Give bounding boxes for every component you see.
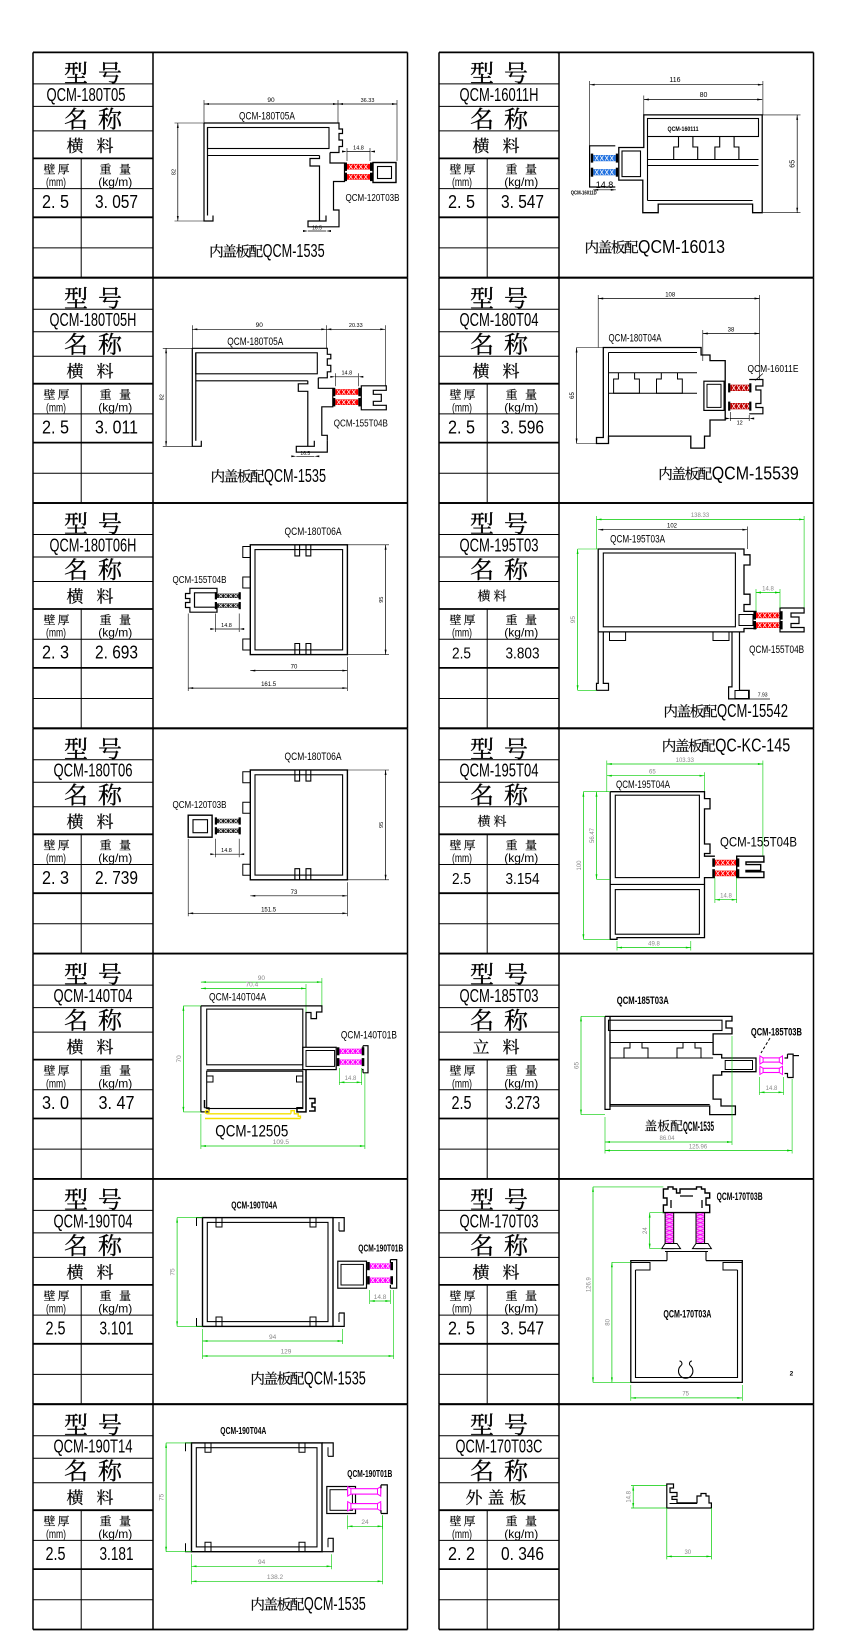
svg-text:(mm): (mm) <box>46 175 66 189</box>
header 壁厚(mm) <box>450 839 461 850</box>
dim 102 <box>598 529 747 531</box>
C-part QCM-155T04B <box>780 608 804 632</box>
svg-text:2. 693: 2. 693 <box>95 642 138 663</box>
dim 16.5 <box>296 455 314 457</box>
dim 20.33 <box>326 328 385 330</box>
svg-text:129: 129 <box>281 1349 292 1356</box>
green dim 109.5 <box>201 1145 365 1147</box>
green dim 14.8 <box>370 1300 391 1302</box>
profile QCM-190T04A outline <box>192 1443 323 1552</box>
drawing frame L5 <box>153 953 408 955</box>
svg-text:(kg/m): (kg/m) <box>98 1302 132 1316</box>
yellow strip QCM-12505 <box>205 1118 301 1120</box>
svg-text:95: 95 <box>379 597 385 603</box>
header 名称 <box>471 1009 492 1031</box>
name 横料 <box>473 363 489 379</box>
right web leg <box>729 632 750 699</box>
header 名称 <box>65 1459 86 1481</box>
header 型号 <box>471 1414 493 1435</box>
svg-text:(mm): (mm) <box>46 400 66 414</box>
header 壁厚(mm) <box>450 614 461 625</box>
svg-text:126.9: 126.9 <box>587 1276 593 1292</box>
dim 12 <box>730 418 749 420</box>
svg-text:2. 5: 2. 5 <box>448 1318 475 1339</box>
svg-text:2. 2: 2. 2 <box>448 1543 475 1564</box>
red connector <box>756 613 780 619</box>
connector dark red <box>730 385 749 391</box>
green dim 90 <box>201 981 322 983</box>
header 名称 <box>471 333 492 355</box>
bottom slots <box>295 644 311 655</box>
svg-text:70.4: 70.4 <box>246 981 259 988</box>
profile QCM-185T03A outline <box>605 1016 756 1114</box>
profile QCM-195T03A outline <box>598 549 756 632</box>
svg-text:3. 011: 3. 011 <box>95 416 138 437</box>
green dim 14.8 vertical <box>631 1485 667 1487</box>
upper hollow <box>615 795 699 877</box>
header 壁厚(mm) <box>44 389 55 400</box>
dim 16.5 <box>308 230 326 232</box>
dim 14.8 <box>215 853 239 855</box>
green vdim 24 <box>649 1213 651 1249</box>
svg-text:16.5: 16.5 <box>300 451 310 457</box>
flares <box>662 1244 681 1249</box>
svg-text:14.8: 14.8 <box>341 371 352 377</box>
svg-text:QCM-180T06A: QCM-180T06A <box>285 751 343 763</box>
header 型号 <box>471 62 493 83</box>
profile QCM-180T06A outline <box>250 770 347 880</box>
svg-text:(mm): (mm) <box>452 1076 472 1090</box>
svg-text:(mm): (mm) <box>452 175 472 189</box>
svg-text:14.8: 14.8 <box>221 848 232 854</box>
profile QCM-190T04A outline <box>203 1218 334 1327</box>
left leg <box>597 632 609 690</box>
header 重量(kg/m) <box>506 1290 517 1301</box>
caption 内盖板配QCM-1535 <box>252 1372 264 1385</box>
svg-text:38: 38 <box>728 327 735 333</box>
header 重量(kg/m) <box>506 1065 517 1076</box>
box QCM-120T03B <box>188 815 212 837</box>
svg-text:QCM-140T01B: QCM-140T01B <box>341 1030 397 1042</box>
svg-text:86.04: 86.04 <box>659 1136 675 1142</box>
svg-text:2. 3: 2. 3 <box>42 642 69 663</box>
caption 内盖板配QCM-15542 <box>665 704 677 717</box>
svg-text:QCM-180T05A: QCM-180T05A <box>239 111 295 123</box>
svg-text:QCM-155T04B: QCM-155T04B <box>749 644 804 656</box>
svg-text:73: 73 <box>291 890 298 896</box>
mid tongue hollow <box>739 615 753 626</box>
header 型号 <box>471 512 493 533</box>
keyhole <box>679 1365 693 1378</box>
dim bottom 70 <box>250 670 347 672</box>
green dim 30 <box>666 1508 668 1559</box>
svg-text:16.5: 16.5 <box>312 226 322 232</box>
svg-text:QCM-16011D: QCM-16011D <box>571 191 597 197</box>
drawing frame R2 <box>557 277 814 279</box>
magenta hatch columns <box>665 1213 674 1249</box>
table block QCM-185T03 <box>439 953 559 955</box>
svg-text:QCM-190T01B: QCM-190T01B <box>358 1244 403 1255</box>
svg-text:56.47: 56.47 <box>590 827 596 843</box>
header 名称 <box>471 108 492 130</box>
svg-text:90: 90 <box>267 97 275 104</box>
svg-text:90: 90 <box>258 975 266 982</box>
svg-text:80: 80 <box>605 1318 611 1325</box>
svg-text:(kg/m): (kg/m) <box>504 1527 538 1541</box>
svg-text:94: 94 <box>258 1559 266 1566</box>
svg-text:102: 102 <box>667 524 678 530</box>
svg-text:2.5: 2.5 <box>452 871 471 888</box>
header 重量(kg/m) <box>506 614 517 625</box>
mid shelf <box>610 883 704 885</box>
name 横料 <box>67 588 83 604</box>
left notch hooks <box>207 1076 213 1082</box>
svg-text:24: 24 <box>361 1519 369 1526</box>
name 横料 <box>67 1039 83 1055</box>
svg-text:3. 547: 3. 547 <box>501 1318 544 1339</box>
C-part QCM-155T04B <box>737 856 764 877</box>
name 横料 <box>67 1489 83 1505</box>
svg-text:20.33: 20.33 <box>349 323 363 329</box>
table block QCM-195T04 <box>439 727 559 729</box>
svg-text:QCM-15542: QCM-15542 <box>717 700 788 721</box>
svg-text:(kg/m): (kg/m) <box>98 626 132 640</box>
attach box <box>622 151 641 177</box>
svg-text:(mm): (mm) <box>46 626 66 640</box>
svg-text:3. 47: 3. 47 <box>99 1092 135 1113</box>
svg-text:138.2: 138.2 <box>267 1574 284 1581</box>
drawing frame L6 <box>153 1178 408 1180</box>
svg-text:2. 3: 2. 3 <box>42 867 69 888</box>
svg-text:QCM-195T04: QCM-195T04 <box>460 761 539 781</box>
header 型号 <box>471 738 493 759</box>
right column <box>333 1218 344 1327</box>
right bracket <box>785 1054 794 1077</box>
header 型号 <box>65 738 87 759</box>
dim vertical 95 <box>385 545 387 655</box>
svg-text:14.8: 14.8 <box>720 894 732 900</box>
header 重量(kg/m) <box>100 389 111 400</box>
svg-text:24: 24 <box>643 1227 649 1234</box>
connector hatched <box>217 819 239 823</box>
svg-text:49.8: 49.8 <box>648 941 660 947</box>
dim 116 <box>590 84 763 86</box>
right tongue <box>303 1047 336 1069</box>
green vdim 100 <box>582 792 584 940</box>
header 重量(kg/m) <box>506 164 517 175</box>
green dim 129 <box>203 1355 394 1357</box>
svg-text:2. 5: 2. 5 <box>42 191 69 212</box>
svg-text:QCM-190T04A: QCM-190T04A <box>220 1426 266 1437</box>
name 立料 <box>473 1039 489 1053</box>
svg-text:QCM-180T05: QCM-180T05 <box>47 85 126 105</box>
caption 内盖板配QCM-15539 <box>660 467 672 480</box>
name 横料 <box>473 138 489 154</box>
dim 80 <box>644 99 762 101</box>
profile web right <box>310 156 320 222</box>
connector hatched <box>217 594 239 598</box>
profile QCM-180T05A outline <box>192 348 201 446</box>
header 名称 <box>471 1459 492 1481</box>
connector red <box>335 389 358 395</box>
svg-text:QCM-1535: QCM-1535 <box>263 240 325 261</box>
upper hollow <box>603 553 735 627</box>
vdim 65 <box>796 115 798 213</box>
svg-text:(kg/m): (kg/m) <box>98 400 132 414</box>
green vdim 65 <box>580 1016 582 1114</box>
profile QCM-180T05A outline <box>204 123 213 221</box>
T slots <box>624 1043 648 1059</box>
green dim 138.2 <box>192 1580 383 1582</box>
header 名称 <box>471 1234 492 1256</box>
dim 36.33 <box>338 103 397 105</box>
green vdim 70 <box>182 1006 184 1112</box>
svg-text:14.8: 14.8 <box>221 623 232 629</box>
header 名称 <box>65 108 86 130</box>
green dim 14.8 <box>756 592 780 594</box>
svg-text:65: 65 <box>790 160 797 168</box>
profile QCM-160111 outline <box>619 115 762 213</box>
svg-text:QCM-15539: QCM-15539 <box>712 463 799 484</box>
svg-text:QCM-195T03A: QCM-195T03A <box>610 533 665 545</box>
header 重量(kg/m) <box>100 164 111 175</box>
header 壁厚(mm) <box>44 1065 55 1076</box>
bottom slots <box>295 869 311 880</box>
svg-text:(mm): (mm) <box>46 1302 66 1316</box>
header 型号 <box>471 287 493 308</box>
svg-text:QCM-155T04B: QCM-155T04B <box>720 834 797 850</box>
lower hollow <box>648 200 753 202</box>
profile QCM-195T04A outline <box>610 792 715 857</box>
header 型号 <box>65 963 87 984</box>
mid separator <box>207 1069 303 1071</box>
green dim 94 <box>203 1340 343 1342</box>
connector magenta QCM-140T01B <box>339 1049 361 1054</box>
dim 14.8 <box>215 628 239 630</box>
header 重量(kg/m) <box>506 1515 517 1526</box>
dim 82 vertical <box>165 348 167 446</box>
name 横料 <box>473 1264 489 1280</box>
svg-text:QCM-190T14: QCM-190T14 <box>54 1437 133 1457</box>
header 名称 <box>65 1009 86 1031</box>
table block QCM-190T04 <box>33 1178 153 1180</box>
header 名称 <box>65 333 86 355</box>
T slot 1 <box>674 137 698 160</box>
svg-text:(kg/m): (kg/m) <box>504 175 538 189</box>
red connector <box>715 860 737 866</box>
dim vertical 95 <box>385 770 387 880</box>
svg-text:QCM-170T03B: QCM-170T03B <box>717 1191 763 1203</box>
svg-text:3.181: 3.181 <box>100 1543 134 1564</box>
svg-text:QCM-195T03: QCM-195T03 <box>460 535 539 555</box>
svg-text:QCM-140T04: QCM-140T04 <box>54 986 133 1006</box>
header 重量(kg/m) <box>100 1065 111 1076</box>
C-part QCM-155T04B <box>361 386 386 410</box>
profile QCM-180T06A outline <box>250 545 347 655</box>
header 壁厚(mm) <box>450 1515 461 1526</box>
box QCM-120T03B <box>373 163 396 183</box>
svg-text:QCM-120T03B: QCM-120T03B <box>346 192 400 204</box>
svg-text:100: 100 <box>577 860 583 871</box>
dim bottom 73 <box>250 895 347 897</box>
header 壁厚(mm) <box>450 164 461 175</box>
drawing frame L1 <box>153 51 408 53</box>
left blue connector column <box>590 146 616 187</box>
green dim 70.4 <box>201 987 306 989</box>
header 名称 <box>471 558 492 580</box>
green vdim 95 <box>577 549 579 690</box>
svg-text:QCM-190T04A: QCM-190T04A <box>231 1201 277 1212</box>
right bracket <box>362 1046 368 1073</box>
header 名称 <box>65 558 86 580</box>
C-part QCM-16011E <box>749 380 763 414</box>
svg-text:3. 547: 3. 547 <box>501 191 544 212</box>
svg-text:80: 80 <box>700 92 708 99</box>
svg-text:QCM-155T04B: QCM-155T04B <box>173 574 227 586</box>
table block QCM-170T03C <box>439 1403 559 1405</box>
right bracket <box>381 1485 387 1514</box>
header 重量(kg/m) <box>506 839 517 850</box>
svg-text:75: 75 <box>159 1493 166 1501</box>
profile web right <box>298 381 308 447</box>
dim 90 <box>192 328 326 330</box>
svg-text:QCM-140T04A: QCM-140T04A <box>209 992 267 1004</box>
right column <box>322 1443 333 1552</box>
leader line <box>761 1038 770 1053</box>
magenta connector outlined <box>760 1058 783 1062</box>
svg-text:2.5: 2.5 <box>46 1318 66 1339</box>
dim 82 vertical <box>177 123 179 221</box>
svg-text:65: 65 <box>570 392 576 399</box>
header 壁厚(mm) <box>450 1065 461 1076</box>
svg-text:QCM-170T03: QCM-170T03 <box>460 1211 539 1231</box>
table block QCM-180T05H <box>33 277 153 279</box>
header 型号 <box>65 287 87 308</box>
link to box <box>665 1252 708 1261</box>
svg-text:82: 82 <box>171 169 177 175</box>
header 型号 <box>65 512 87 533</box>
svg-text:QCM-180T05A: QCM-180T05A <box>227 336 283 348</box>
header 名称 <box>471 783 492 805</box>
name 横料 <box>67 814 83 830</box>
table block QCM-16011H <box>439 51 559 53</box>
inner hollow T03B <box>671 1196 702 1208</box>
svg-text:95: 95 <box>570 616 577 624</box>
profile QCM-170T03B outline <box>663 1187 709 1213</box>
svg-text:30: 30 <box>684 1550 691 1556</box>
green dim 75 <box>631 1397 743 1399</box>
svg-text:(mm): (mm) <box>46 851 66 865</box>
svg-text:3. 0: 3. 0 <box>42 1092 69 1113</box>
green vdim 75 <box>176 1218 178 1327</box>
svg-text:QCM-180T06H: QCM-180T06H <box>50 535 137 555</box>
profile QCM-140T04A outline <box>201 1006 322 1047</box>
green dim 138.33 <box>597 518 805 520</box>
svg-text:70: 70 <box>291 665 298 671</box>
green vdim 56.47 <box>596 792 598 880</box>
svg-text:QCM-185T03B: QCM-185T03B <box>751 1027 802 1039</box>
top-left hook <box>186 1443 192 1451</box>
dim 38 <box>703 333 760 335</box>
svg-text:82: 82 <box>160 394 166 400</box>
svg-text:(kg/m): (kg/m) <box>504 1076 538 1090</box>
svg-text:QCM-185T03: QCM-185T03 <box>460 986 539 1006</box>
header 壁厚(mm) <box>450 1290 461 1301</box>
svg-text:(kg/m): (kg/m) <box>98 1527 132 1541</box>
caption 盖板配QCM-1535 bold <box>645 1120 657 1131</box>
top bar hollow <box>609 1020 723 1030</box>
svg-text:2.5: 2.5 <box>452 646 471 663</box>
header 重量(kg/m) <box>100 1515 111 1526</box>
svg-text:QCM-180T05H: QCM-180T05H <box>50 310 137 330</box>
svg-text:QCM-160111: QCM-160111 <box>668 126 699 133</box>
svg-text:90: 90 <box>256 322 264 329</box>
table block QCM-180T05 <box>33 51 153 53</box>
svg-text:QCM-1535: QCM-1535 <box>304 1593 366 1614</box>
green vdim 80 <box>611 1262 613 1382</box>
svg-text:3.101: 3.101 <box>100 1318 134 1339</box>
inner top bar <box>609 352 698 354</box>
svg-text:2. 739: 2. 739 <box>95 867 138 888</box>
svg-text:QCM-180T06: QCM-180T06 <box>54 761 133 781</box>
svg-text:QCM-155T04B: QCM-155T04B <box>334 417 388 429</box>
svg-text:QCM-185T03A: QCM-185T03A <box>617 995 669 1007</box>
svg-text:0. 346: 0. 346 <box>501 1543 544 1564</box>
header 型号 <box>65 62 87 83</box>
header 名称 <box>65 783 86 805</box>
header 重量(kg/m) <box>100 1290 111 1301</box>
lower hollow <box>615 890 699 935</box>
C-part QCM-155T04B <box>186 588 218 612</box>
T slot 2 <box>657 373 683 394</box>
svg-text:151.5: 151.5 <box>261 907 277 913</box>
svg-text:108: 108 <box>665 292 676 298</box>
table block QCM-180T06H <box>33 502 153 504</box>
svg-text:3.273: 3.273 <box>505 1092 540 1113</box>
svg-text:QCM-1535: QCM-1535 <box>683 1119 714 1134</box>
green dim 103.33 <box>607 763 763 765</box>
svg-text:QCM-195T04A: QCM-195T04A <box>616 779 670 791</box>
svg-text:QCM-180T04A: QCM-180T04A <box>609 333 662 345</box>
svg-text:QCM-1535: QCM-1535 <box>264 465 326 486</box>
left edge hooks <box>243 547 251 558</box>
svg-text:QCM-1535: QCM-1535 <box>304 1367 366 1388</box>
svg-text:(kg/m): (kg/m) <box>504 851 538 865</box>
svg-text:QCM-16013: QCM-16013 <box>638 236 725 257</box>
header 壁厚(mm) <box>450 389 461 400</box>
svg-text:QCM-170T03A: QCM-170T03A <box>663 1309 711 1321</box>
svg-text:14.8: 14.8 <box>345 1076 357 1082</box>
connector magenta <box>348 1489 381 1494</box>
svg-text:3. 057: 3. 057 <box>95 191 138 212</box>
inner top slots <box>216 1218 316 1227</box>
header 名称 <box>65 1234 86 1256</box>
svg-text:65: 65 <box>574 1062 581 1070</box>
profile QCM-170T03C outline <box>667 1484 712 1508</box>
green dim 14.8 <box>339 1081 361 1083</box>
connector red <box>347 164 370 170</box>
right C-hook foot <box>309 1099 315 1112</box>
connector magenta <box>370 1263 391 1268</box>
drawing frame R5 <box>557 953 814 955</box>
svg-text:(kg/m): (kg/m) <box>98 1076 132 1090</box>
svg-text:7.93: 7.93 <box>758 693 768 699</box>
svg-text:QCM-180T06A: QCM-180T06A <box>285 526 343 538</box>
top slots <box>295 770 311 781</box>
svg-text:2. 5: 2. 5 <box>448 416 475 437</box>
svg-text:161.5: 161.5 <box>261 682 277 688</box>
svg-text:QCM-16011H: QCM-16011H <box>460 85 539 105</box>
